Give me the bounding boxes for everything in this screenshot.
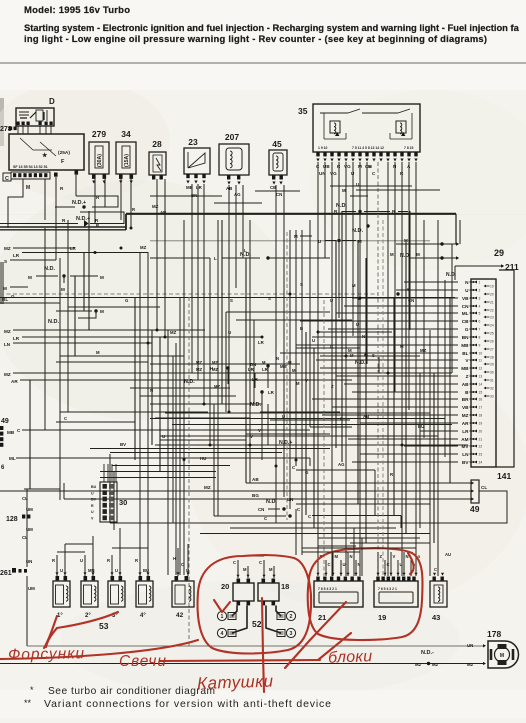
svg-text:35: 35 [298, 106, 308, 116]
svg-text:CB: CB [462, 319, 469, 324]
svg-text:M: M [292, 368, 296, 373]
svg-text:23: 23 [188, 137, 198, 147]
svg-text:R: R [135, 558, 138, 563]
svg-text:See turbo air conditioner diag: See turbo air conditioner diagram [48, 686, 215, 697]
svg-text:SF 16 55 54 13 52 51: SF 16 55 54 13 52 51 [13, 165, 48, 169]
svg-text:MB: MB [461, 343, 469, 348]
svg-text:11: 11 [479, 359, 483, 363]
svg-text:H: H [173, 556, 176, 561]
svg-text:AG: AG [338, 462, 345, 467]
svg-text:U: U [80, 558, 83, 563]
svg-text:HU: HU [200, 456, 206, 461]
svg-text:4: 4 [479, 305, 481, 309]
svg-text:BV: BV [120, 442, 126, 447]
svg-text:178: 178 [487, 629, 501, 639]
svg-text:20: 20 [490, 293, 494, 297]
svg-text:VG: VG [344, 164, 351, 169]
svg-text:Model: 1995 16v Turbo: Model: 1995 16v Turbo [24, 5, 130, 16]
svg-text:N.D.: N.D. [355, 360, 366, 366]
svg-text:BL: BL [462, 351, 468, 356]
svg-text:U: U [60, 568, 63, 573]
svg-text:6: 6 [479, 320, 481, 324]
svg-text:MZ: MZ [4, 246, 11, 251]
svg-text:7 5 11 4 5 8 13 14 12: 7 5 11 4 5 8 13 14 12 [352, 146, 384, 150]
svg-text:C: C [181, 562, 184, 567]
svg-text:VB: VB [462, 405, 469, 410]
svg-text:B: B [300, 326, 303, 331]
svg-text:LN: LN [462, 452, 469, 457]
svg-text:M: M [100, 309, 104, 314]
svg-text:C: C [330, 344, 333, 349]
svg-text:Z: Z [380, 554, 383, 559]
svg-text:**: ** [24, 698, 32, 708]
svg-text:BL: BL [2, 297, 8, 302]
svg-text:19: 19 [490, 285, 494, 289]
svg-text:N: N [358, 562, 361, 567]
svg-text:207: 207 [225, 132, 239, 142]
svg-text:AB: AB [226, 186, 232, 191]
svg-text:20: 20 [479, 430, 483, 434]
svg-text:VG: VG [330, 171, 337, 176]
svg-text:MZ: MZ [462, 413, 469, 418]
svg-text:28: 28 [152, 139, 162, 149]
svg-text:AU: AU [445, 552, 451, 557]
svg-text:261: 261 [0, 570, 12, 577]
svg-text:блоки: блоки [328, 648, 373, 667]
svg-text:S: S [268, 296, 271, 301]
svg-text:LR: LR [462, 429, 469, 434]
svg-text:23: 23 [490, 316, 494, 320]
svg-text:N.D.: N.D. [48, 319, 59, 325]
svg-text:42: 42 [176, 612, 184, 619]
svg-text:M: M [400, 344, 404, 349]
svg-text:24: 24 [479, 461, 483, 465]
svg-text:U: U [282, 414, 285, 419]
svg-text:52: 52 [252, 619, 262, 629]
svg-text:BN: BN [250, 362, 256, 367]
svg-text:M: M [500, 653, 504, 659]
svg-text:V: V [258, 428, 261, 433]
svg-text:53: 53 [99, 621, 109, 631]
svg-text:ML: ML [9, 456, 16, 461]
svg-text:2°: 2° [85, 613, 91, 619]
svg-text:CN: CN [408, 298, 414, 303]
svg-text:M: M [269, 567, 273, 572]
svg-text:AM: AM [461, 437, 468, 442]
svg-text:7: 7 [479, 328, 481, 332]
svg-text:31: 31 [490, 379, 494, 383]
svg-text:28: 28 [490, 356, 494, 360]
svg-text:4: 4 [221, 631, 224, 637]
svg-text:LN: LN [4, 342, 11, 347]
svg-text:BU: BU [143, 568, 149, 573]
svg-text:U: U [186, 568, 189, 573]
svg-text:9: 9 [479, 344, 481, 348]
svg-text:N: N [150, 388, 153, 393]
svg-text:M2: M2 [467, 662, 474, 667]
svg-text:141: 141 [497, 471, 511, 481]
svg-text:MB: MB [186, 185, 193, 190]
svg-text:N.D.+: N.D.+ [72, 200, 86, 206]
svg-text:MN: MN [88, 568, 95, 573]
svg-text:23: 23 [479, 453, 483, 457]
svg-text:29: 29 [490, 363, 494, 367]
svg-text:Свечи: Свечи [119, 653, 166, 670]
svg-text:U: U [312, 338, 315, 343]
svg-text:AB: AB [363, 414, 369, 419]
svg-text:Variant connections for versio: Variant connections for version with ant… [44, 698, 331, 710]
svg-text:Z: Z [466, 374, 469, 379]
svg-text:18: 18 [479, 414, 483, 418]
svg-text:V: V [393, 554, 396, 559]
svg-text:MZ: MZ [140, 245, 147, 250]
svg-text:LR: LR [70, 246, 77, 251]
svg-text:S: S [4, 259, 7, 264]
svg-text:R: R [107, 558, 110, 563]
svg-text:UM: UM [26, 507, 33, 512]
svg-text:128: 128 [6, 516, 18, 523]
svg-text:24: 24 [490, 324, 494, 328]
svg-text:M2: M2 [415, 662, 422, 667]
svg-text:21: 21 [490, 301, 494, 305]
svg-text:M2: M2 [432, 662, 439, 667]
svg-text:N: N [350, 554, 353, 559]
svg-text:AG: AG [234, 192, 241, 197]
svg-text:MB: MB [461, 366, 469, 371]
svg-text:M: M [243, 567, 247, 572]
svg-text:2: 2 [479, 289, 481, 293]
svg-text:49: 49 [470, 504, 480, 514]
svg-text:G: G [11, 294, 15, 299]
svg-text:M: M [416, 252, 420, 257]
svg-text:M: M [368, 164, 372, 169]
svg-text:R: R [52, 558, 55, 563]
svg-text:16: 16 [479, 398, 483, 402]
svg-text:M: M [3, 286, 7, 291]
svg-text:29: 29 [494, 248, 504, 258]
svg-text:(15A): (15A) [124, 154, 130, 167]
svg-text:10: 10 [479, 352, 483, 356]
svg-text:LR: LR [268, 390, 275, 395]
svg-text:AR: AR [160, 210, 167, 215]
svg-text:LR: LR [258, 340, 265, 345]
svg-text:MZ: MZ [204, 485, 211, 490]
svg-text:BG: BG [252, 493, 259, 498]
svg-text:N.D.: N.D. [352, 228, 363, 234]
svg-text:30: 30 [490, 371, 494, 375]
svg-text:LR: LR [252, 377, 259, 382]
svg-text:ing light - Low engine oil pre: ing light - Low engine oil pressure warn… [24, 33, 487, 44]
svg-text:AB: AB [462, 382, 469, 387]
svg-text:C: C [259, 560, 262, 565]
svg-text:C: C [387, 562, 390, 567]
svg-text:45: 45 [272, 139, 282, 149]
svg-text:UN: UN [26, 559, 32, 564]
svg-text:M: M [61, 287, 65, 292]
svg-text:S: S [300, 282, 303, 287]
svg-text:(25A): (25A) [58, 150, 70, 156]
svg-text:19: 19 [479, 422, 483, 426]
svg-text:CN: CN [462, 304, 469, 309]
svg-text:L: L [214, 256, 217, 261]
svg-text:CB: CB [270, 185, 276, 190]
svg-text:LR: LR [13, 336, 20, 341]
svg-text:2: 2 [290, 614, 293, 620]
svg-text:BU: BU [418, 424, 424, 429]
svg-text:30: 30 [119, 498, 127, 507]
svg-text:U: U [91, 510, 94, 514]
svg-text:UM: UM [26, 527, 33, 532]
svg-text:C: C [328, 562, 331, 567]
svg-text:13: 13 [479, 375, 483, 379]
svg-text:U: U [115, 568, 118, 573]
svg-text:1: 1 [221, 614, 224, 620]
svg-text:8: 8 [479, 336, 481, 340]
svg-text:Z: Z [331, 384, 334, 389]
svg-text:VB: VB [462, 296, 469, 301]
svg-text:H: H [210, 366, 213, 371]
svg-text:15: 15 [479, 391, 483, 395]
svg-text:R: R [91, 504, 94, 508]
svg-text:N.D.: N.D. [250, 402, 261, 408]
svg-text:CL: CL [481, 485, 487, 490]
svg-text:U: U [400, 562, 403, 567]
svg-text:17: 17 [479, 406, 483, 410]
svg-text:BN: BN [462, 335, 469, 340]
svg-text:N: N [276, 356, 279, 361]
svg-text:MZ: MZ [152, 204, 159, 209]
svg-text:LR: LR [13, 253, 20, 258]
svg-text:12: 12 [479, 367, 483, 371]
svg-text:N.D.: N.D. [184, 379, 195, 385]
svg-text:C: C [5, 176, 9, 182]
svg-text:3: 3 [290, 631, 293, 637]
svg-text:34: 34 [121, 129, 131, 139]
svg-text:M: M [296, 381, 300, 386]
svg-text:N.D.-: N.D.- [421, 650, 434, 656]
svg-text:C: C [434, 567, 437, 572]
svg-text:U: U [330, 298, 333, 303]
svg-text:CN: CN [276, 192, 282, 197]
svg-text:AR: AR [462, 421, 469, 426]
svg-text:26: 26 [490, 340, 494, 344]
svg-text:21: 21 [479, 438, 483, 442]
svg-text:CN: CN [258, 507, 264, 512]
svg-text:1: 1 [479, 281, 481, 285]
svg-text:33: 33 [490, 395, 494, 399]
svg-text:MB: MB [7, 430, 15, 435]
svg-text:★: ★ [42, 152, 48, 159]
svg-text:32: 32 [490, 387, 494, 391]
svg-text:N.D.+: N.D.+ [76, 216, 90, 222]
svg-text:MZ: MZ [196, 367, 202, 372]
svg-text:M: M [96, 350, 100, 355]
svg-text:V: V [305, 378, 308, 383]
svg-text:21: 21 [318, 613, 326, 622]
svg-text:U: U [228, 330, 231, 335]
svg-text:7 6 5 4 3 2 1: 7 6 5 4 3 2 1 [378, 587, 397, 591]
svg-text:N.D.: N.D. [446, 272, 457, 278]
svg-text:43: 43 [432, 613, 440, 622]
svg-text:G: G [465, 327, 469, 332]
svg-text:CL: CL [22, 535, 28, 540]
svg-text:BR: BR [462, 397, 469, 402]
svg-text:7 8 15: 7 8 15 [404, 146, 414, 150]
svg-text:BV: BV [91, 498, 97, 502]
svg-text:*: * [30, 685, 34, 695]
svg-text:BV: BV [462, 460, 469, 465]
svg-text:7 6 5 4 3 2 1: 7 6 5 4 3 2 1 [318, 587, 337, 591]
svg-text:MZ: MZ [420, 348, 427, 353]
svg-text:19: 19 [378, 613, 386, 622]
svg-text:C: C [64, 416, 67, 421]
svg-text:3: 3 [479, 297, 481, 301]
svg-text:22: 22 [490, 309, 494, 313]
svg-text:CL: CL [22, 496, 28, 501]
svg-text:49: 49 [1, 418, 9, 425]
svg-text:AB: AB [252, 477, 259, 482]
svg-text:LR: LR [196, 185, 203, 190]
svg-text:MZ: MZ [4, 329, 11, 334]
svg-text:279: 279 [92, 129, 106, 139]
svg-text:L: L [244, 248, 247, 253]
svg-text:N: N [362, 334, 365, 339]
svg-text:Форсунки: Форсунки [8, 645, 85, 663]
svg-text:U: U [343, 562, 346, 567]
svg-text:UB: UB [323, 164, 330, 169]
svg-text:27: 27 [490, 348, 494, 352]
svg-text:MB: MB [280, 364, 287, 369]
svg-text:MZ: MZ [170, 330, 177, 335]
svg-text:20: 20 [221, 582, 229, 591]
svg-text:AR: AR [11, 379, 18, 384]
svg-text:UN: UN [467, 643, 473, 648]
svg-text:14: 14 [479, 383, 483, 387]
svg-text:5: 5 [479, 312, 481, 316]
svg-text:ML: ML [462, 311, 469, 316]
svg-text:Starting system - Electronic i: Starting system - Electronic ignition an… [24, 22, 520, 33]
svg-text:S: S [230, 298, 233, 303]
svg-text:UM: UM [28, 586, 35, 591]
svg-text:M: M [342, 188, 346, 193]
svg-text:(30A): (30A) [97, 154, 103, 167]
svg-text:1 9 10: 1 9 10 [318, 146, 328, 150]
svg-text:U: U [91, 491, 94, 495]
svg-text:M: M [28, 275, 32, 280]
svg-text:MZ: MZ [4, 372, 11, 377]
svg-text:M: M [26, 185, 30, 191]
svg-text:M: M [390, 252, 394, 257]
svg-text:C: C [233, 560, 236, 565]
svg-text:22: 22 [479, 445, 483, 449]
svg-text:M: M [335, 554, 339, 559]
svg-text:D: D [49, 97, 55, 106]
svg-text:BU: BU [91, 485, 97, 489]
svg-text:4°: 4° [140, 613, 146, 619]
svg-text:18: 18 [281, 582, 289, 591]
svg-text:25: 25 [490, 332, 494, 336]
svg-text:N.D.: N.D. [44, 266, 55, 272]
svg-text:M: M [100, 275, 104, 280]
svg-text:M: M [352, 283, 356, 288]
